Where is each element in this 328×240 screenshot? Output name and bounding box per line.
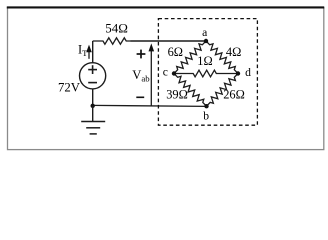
svg-text:6Ω: 6Ω xyxy=(168,45,183,59)
svg-text:d: d xyxy=(245,66,251,79)
wire left vertical (top) xyxy=(92,41,94,63)
resistor 54ohm xyxy=(93,21,131,45)
plus sign (Vab polarity) xyxy=(137,50,146,59)
svg-text:39Ω: 39Ω xyxy=(166,88,188,102)
node b xyxy=(203,104,209,122)
resistor 4ohm (a to d) xyxy=(206,41,241,74)
node d xyxy=(236,66,251,79)
resistor 1ohm (c to d) xyxy=(174,54,238,77)
node a xyxy=(202,26,208,43)
voltage arrow Vab xyxy=(149,43,155,105)
svg-text:4Ω: 4Ω xyxy=(226,45,241,59)
svg-text:26Ω: 26Ω xyxy=(223,88,245,102)
svg-text:54Ω: 54Ω xyxy=(105,21,128,36)
label IT xyxy=(78,42,88,58)
label Vab xyxy=(132,68,150,84)
wire bottom (ground node to node b) xyxy=(93,105,207,106)
node c xyxy=(163,66,176,79)
resistor 6ohm (a to c) xyxy=(168,41,206,74)
svg-text:a: a xyxy=(202,26,207,39)
svg-text:c: c xyxy=(163,66,168,79)
ground xyxy=(81,106,105,134)
current arrow IT xyxy=(86,45,92,59)
voltage source 72V xyxy=(80,63,106,89)
dashed box (bridge subcircuit boundary) xyxy=(158,19,257,126)
label 72V xyxy=(58,81,81,95)
svg-text:b: b xyxy=(203,109,209,122)
svg-text:1Ω: 1Ω xyxy=(197,54,212,68)
minus sign (Vab polarity) xyxy=(136,96,144,98)
junction node (source minus / ground) xyxy=(91,104,95,108)
resistor 26ohm (b to d) xyxy=(207,74,245,107)
resistor 39ohm (c to b) xyxy=(166,74,206,107)
svg-text:72V: 72V xyxy=(58,81,81,95)
wire left vertical (bottom of source to ground node) xyxy=(92,89,94,106)
wire top (54ohm resistor output to node a) xyxy=(131,40,207,42)
